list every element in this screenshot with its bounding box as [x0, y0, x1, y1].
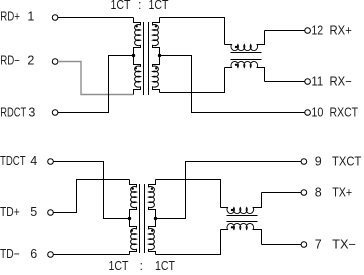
wire choke L1 to pin 12 [265, 30, 305, 32]
transformer T1 secondary winding top [153, 18, 160, 56]
wire T1 secondary CT to pin 10 [160, 56, 305, 113]
wire pin5 to T2 primary top [53, 180, 129, 213]
svg-text:7: 7 [315, 238, 322, 252]
transformer T1 secondary winding bottom [153, 56, 160, 93]
svg-text:10: 10 [311, 105, 323, 119]
svg-text:TD+: TD+ [0, 205, 20, 219]
choke L2 core lines [227, 215, 258, 217]
T2 primary center-tap junction [128, 217, 131, 220]
pin 1 terminal circle [52, 15, 58, 21]
svg-text:RDCT: RDCT [0, 106, 26, 120]
wire pin1 to T1 primary top [58, 17, 134, 19]
pin 9 terminal circle [301, 159, 307, 165]
svg-text:5: 5 [30, 205, 37, 219]
wire T1 secondary top to choke L1 [160, 18, 225, 45]
T1 primary center-tap junction [132, 54, 135, 57]
svg-text:TXCT: TXCT [332, 154, 362, 168]
wire pin2 to T1 primary bottom (gray) [58, 62, 134, 95]
wire pin4 to T2 primary center tap [53, 162, 129, 219]
transformer T2 secondary winding top [149, 180, 156, 219]
pin 10 terminal circle [305, 110, 311, 116]
T2 phase dot primary top [132, 188, 134, 190]
pin 5 terminal circle [48, 210, 54, 216]
choke L2 phase dot bottom [231, 226, 233, 228]
svg-text:1CT: 1CT [109, 259, 129, 273]
choke L1 phase dot bottom [235, 64, 237, 66]
T2 phase dot secondary bottom [151, 230, 153, 232]
svg-text:6: 6 [30, 247, 37, 261]
transformer T2 secondary winding bottom [149, 219, 156, 255]
svg-text:TD−: TD− [0, 247, 20, 261]
svg-text:2: 2 [27, 54, 34, 68]
T2 phase dot secondary top [151, 188, 153, 190]
choke L1 phase dot top [235, 46, 237, 48]
T2 core lines [139, 184, 141, 253]
pin 2 terminal circle [52, 59, 58, 65]
pin 4 terminal circle [48, 159, 54, 165]
wire pin3 to T1 primary center tap [58, 56, 134, 113]
svg-text::: : [138, 0, 141, 12]
svg-text:11: 11 [311, 75, 323, 89]
T2 phase dot primary bottom [131, 230, 133, 232]
wire choke L2 to pin 7 [262, 244, 302, 246]
wire pin6 to T2 primary bottom [53, 254, 129, 256]
svg-text:TX−: TX− [332, 238, 356, 252]
choke L2 winding top [221, 193, 262, 214]
wire T2 secondary top to choke L2 [156, 180, 221, 208]
choke L1 core lines [231, 52, 262, 54]
choke L2 phase dot top [231, 209, 233, 211]
T1 phase dot secondary top [155, 25, 157, 27]
svg-text:12: 12 [311, 23, 323, 37]
pin 12 terminal circle [305, 28, 311, 34]
wire T2 secondary CT to pin 9 [156, 162, 302, 219]
T2 secondary center-tap junction [154, 217, 157, 220]
svg-text:1CT: 1CT [111, 0, 131, 12]
T1 phase dot primary bottom [135, 67, 137, 69]
wire T1 secondary bottom to choke L1 [160, 68, 225, 93]
choke L1 winding top [225, 31, 265, 51]
choke L2 winding bottom [221, 223, 262, 244]
svg-text:TDCT: TDCT [0, 154, 26, 168]
pin 11 terminal circle [305, 79, 311, 85]
choke L1 winding bottom [225, 61, 265, 81]
transformer T1 primary winding top [134, 18, 141, 56]
svg-text:RX+: RX+ [330, 23, 352, 37]
transformer T2 primary winding bottom [130, 219, 137, 255]
svg-text:RXCT: RXCT [330, 105, 359, 119]
svg-text:1CT: 1CT [155, 259, 175, 273]
pin 6 terminal circle [48, 252, 54, 258]
svg-text:8: 8 [315, 186, 322, 200]
wire choke L2 to pin 8 [262, 192, 302, 194]
svg-text:4: 4 [30, 154, 37, 168]
svg-text::: : [140, 259, 143, 273]
svg-text:RX−: RX− [330, 75, 352, 89]
pin 3 terminal circle [52, 110, 58, 116]
pin 8 terminal circle [301, 190, 307, 196]
wire choke L1 to pin 11 [265, 81, 305, 83]
svg-text:1: 1 [27, 10, 34, 24]
svg-text:9: 9 [315, 154, 322, 168]
svg-text:TX+: TX+ [332, 186, 352, 200]
svg-text:1CT: 1CT [149, 0, 169, 12]
T1 phase dot secondary bottom [155, 67, 157, 69]
transformer T1 primary winding bottom [134, 56, 141, 95]
transformer T2 primary winding top [130, 180, 137, 219]
T1 core lines [143, 22, 145, 95]
svg-text:RD+: RD+ [0, 10, 20, 24]
T1 phase dot primary top [136, 25, 138, 27]
svg-text:3: 3 [28, 106, 35, 120]
svg-text:RD−: RD− [0, 54, 20, 68]
pin 7 terminal circle [301, 242, 307, 248]
T1 secondary center-tap junction [158, 54, 161, 57]
wire T2 secondary bottom to choke L2 [156, 230, 221, 255]
